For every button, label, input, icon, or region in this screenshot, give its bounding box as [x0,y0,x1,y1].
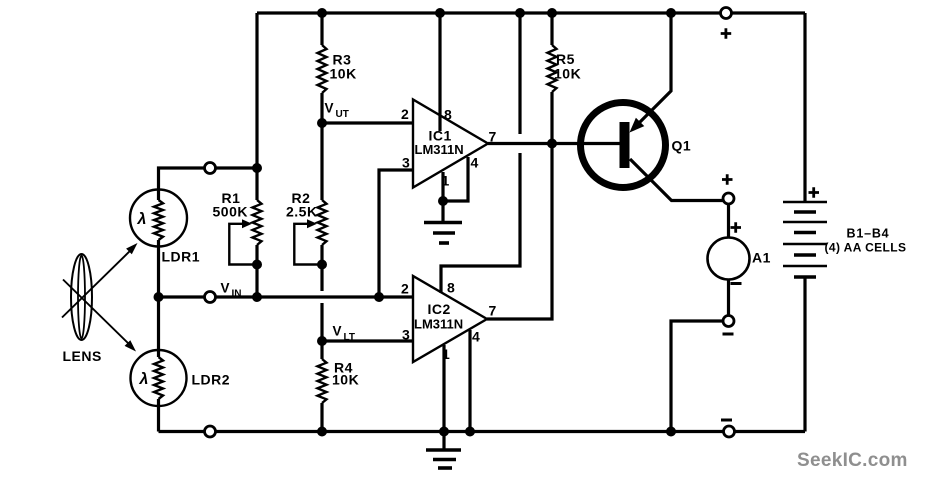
wire R5 bottom / IC2 pin7 vertical [487,92,552,319]
light ray arrow to LDR2 [63,280,136,352]
svg-text:2.5K: 2.5K [286,204,318,220]
wire A1 to lower terminal [727,280,730,316]
wire IC2 pin4 [468,330,471,432]
resistor R1 500K [213,168,262,297]
svg-text:LM311N: LM311N [415,142,464,157]
svg-text:SeekIC.com: SeekIC.com [797,450,908,471]
node IC1 pin8 rail [435,8,445,18]
transistor Q1 [581,13,724,201]
minus below A1 [731,282,742,285]
resistor R5 10K [548,13,582,92]
label VUT [325,101,349,121]
plus above collector terminal [722,174,733,185]
node VIN R1 [252,292,262,302]
wire battery right vertical top [803,13,806,202]
svg-text:LENS: LENS [63,348,102,364]
wire LDR1 top lead to terminal row [159,168,258,200]
wire bottom ground rail [159,430,806,433]
wire LDR1 bottom lead [157,240,160,297]
LDR1 photoresistor [130,190,187,247]
node IC2 supply rail [515,8,525,18]
svg-text:IC2: IC2 [428,301,451,317]
resistor R4 10K [318,341,360,432]
svg-text:λ: λ [139,371,149,388]
resistor R2 2.5K [286,123,327,341]
wire IC1 pin4 [443,157,468,201]
wire battery right vertical bottom [803,277,806,432]
node IC1 ground [438,196,448,206]
svg-text:10K: 10K [332,372,359,388]
svg-text:LM311N: LM311N [414,317,463,332]
svg-text:B1–B4: B1–B4 [847,227,890,241]
ground IC1 [424,201,462,243]
wire left vertical from top rail to R1 [255,13,258,168]
terminal supply positive [721,8,732,19]
terminal collector output [723,193,734,204]
svg-text:V: V [325,101,334,116]
svg-text:7: 7 [489,303,497,319]
svg-text:Q1: Q1 [672,138,692,154]
pin labels IC1 [401,106,497,189]
svg-text:8: 8 [444,107,452,123]
plus at A1 top [731,222,742,233]
terminal LDR1 top [205,163,216,174]
light ray arrow to LDR1 [62,243,138,318]
op-amp IC1 LM311N [413,100,488,188]
wire IC1 pin1 [441,172,444,201]
wire IC1 pin7 output to Q1 base [488,142,620,145]
plus battery [809,187,820,198]
node Q1 emitter rail [666,8,676,18]
svg-text:500K: 500K [213,204,248,220]
wire LDR2 top lead [157,297,160,357]
wire IC2 pin8 supply from top rail [441,13,520,293]
node A1 return rail [666,427,676,437]
wire top supply rail [257,11,805,14]
node IC2 pin1 rail [439,427,449,437]
node VIN wire [159,295,414,298]
node VIN left [154,292,164,302]
svg-text:10K: 10K [554,66,581,82]
terminal A1 negative [723,316,734,327]
node VLT [317,336,327,346]
node VIN IC1 pin3 [374,292,384,302]
pin labels IC2 [401,280,497,363]
svg-text:V: V [333,324,342,339]
node R4 bottom [317,427,327,437]
svg-text:3: 3 [402,327,410,343]
svg-text:10K: 10K [330,66,357,82]
svg-text:V: V [221,281,230,296]
svg-text:λ: λ [137,211,147,228]
node R1 wiper [252,260,262,270]
svg-text:A1: A1 [752,250,771,266]
svg-text:IN: IN [232,289,242,300]
svg-text:8: 8 [447,280,455,296]
svg-text:UT: UT [336,109,349,120]
op-amp IC2 LM311N [413,276,487,362]
wire IC1 pin3 branch [379,170,413,297]
svg-text:4: 4 [471,155,479,171]
node VUT wire [322,121,413,124]
LDR2 photoresistor [131,350,187,406]
node R3 top [317,8,327,18]
svg-text:LDR1: LDR1 [162,249,201,265]
label VIN [221,281,242,300]
svg-text:2: 2 [401,106,409,122]
wire LDR2 bottom lead [157,399,160,432]
svg-text:4: 4 [472,329,480,345]
wire A1 return to bottom rail [671,321,723,432]
terminal bottom left [205,426,216,437]
node VUT [317,118,327,128]
node base drive [547,139,557,149]
wire IC1 pin8 from top rail [438,13,441,131]
node R2 wiper [317,260,327,270]
meter A1 [708,238,771,280]
minus above bottom right terminal [721,419,732,422]
label VLT [333,324,355,344]
lens [71,254,92,340]
battery B1-B4 [783,202,827,277]
Q1 collector [630,159,724,201]
wire IC2 pin1 [442,345,445,432]
terminal bottom right [724,426,735,437]
terminal VIN [205,292,216,303]
node IC2 pin4 rail [465,427,475,437]
plus below supply terminal [721,28,732,39]
node R5 top [547,8,557,18]
node R1 top [252,163,262,173]
svg-text:3: 3 [402,155,410,171]
node VLT wire [322,339,413,342]
minus below negative terminal [723,333,734,336]
svg-text:LT: LT [344,332,355,343]
svg-text:(4) AA CELLS: (4) AA CELLS [825,241,907,255]
wire terminal to A1 [727,204,730,238]
resistor R3 10K [318,13,357,123]
svg-text:LDR2: LDR2 [192,372,231,388]
svg-text:2: 2 [401,281,409,297]
Q1 emitter with arrow [634,13,672,129]
ground IC2 [426,432,461,469]
